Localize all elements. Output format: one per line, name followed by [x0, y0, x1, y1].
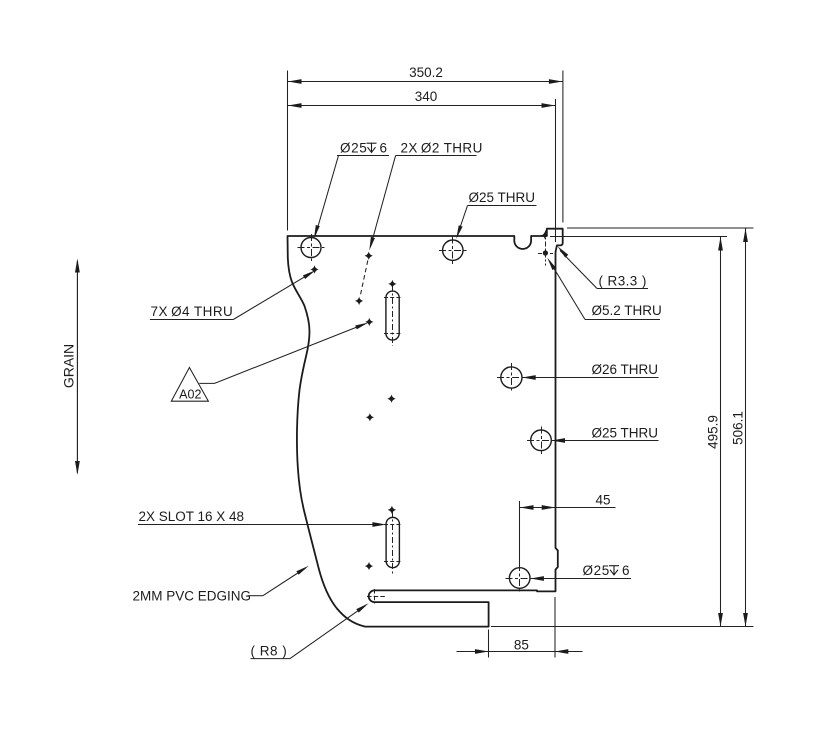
svg-text:Ø5.2 THRU: Ø5.2 THRU	[592, 303, 662, 318]
svg-text:350.2: 350.2	[409, 65, 443, 80]
svg-text:Ø25 THRU: Ø25 THRU	[469, 190, 536, 205]
slot 16x48 upper	[386, 291, 399, 340]
dashed link between 2x d2 holes	[360, 261, 368, 298]
label d25 depth 6 bottom	[530, 563, 631, 581]
drill point d4 hole 2	[365, 318, 373, 326]
dimension 506.1	[567, 228, 754, 627]
slot R8 centerline	[367, 589, 387, 604]
svg-text:GRAIN: GRAIN	[61, 344, 77, 388]
svg-text:506.1: 506.1	[731, 411, 746, 445]
svg-text:Ø25: Ø25	[583, 563, 610, 578]
label 7x d4 thru	[150, 270, 316, 319]
svg-text:A02: A02	[179, 388, 201, 402]
svg-text:( R3.3 ): ( R3.3 )	[599, 274, 647, 289]
dimension 45	[520, 501, 616, 566]
label R3.3	[558, 246, 649, 288]
label R8	[251, 603, 369, 658]
hole 26 thru right	[501, 367, 522, 388]
svg-text:6: 6	[622, 563, 630, 578]
svg-text:495.9: 495.9	[706, 415, 721, 449]
drill point d4 hole 7	[365, 562, 373, 570]
drill point d4 hole 4	[387, 395, 395, 403]
drill point near d5.2 hole	[541, 232, 548, 239]
svg-text:2X Ø2 THRU: 2X Ø2 THRU	[401, 141, 483, 156]
edge band triangle A02	[171, 323, 368, 402]
svg-text:2X SLOT 16 X 48: 2X SLOT 16 X 48	[139, 509, 245, 524]
slot 16x48 lower	[386, 517, 399, 567]
hole counterbore 25x6 bottom	[509, 568, 530, 589]
label 2x d2 thru	[369, 141, 482, 251]
label d5.2 thru	[547, 258, 662, 320]
bottom extension line	[491, 626, 754, 628]
drill point d4 hole 6	[388, 506, 396, 514]
svg-text:2MM PVC EDGING: 2MM PVC EDGING	[133, 589, 252, 604]
drill point stars (7x d4 and 2x d2)	[310, 232, 548, 570]
drill point d4 hole 3	[388, 280, 396, 288]
svg-text:340: 340	[415, 89, 438, 104]
label d25 thru right	[552, 426, 659, 443]
svg-text:Ø26 THRU: Ø26 THRU	[592, 362, 659, 377]
label d26 thru	[522, 362, 658, 380]
dimension 350.2	[288, 71, 563, 231]
grain arrow	[76, 261, 78, 473]
svg-text:45: 45	[595, 493, 610, 508]
svg-text:6: 6	[380, 141, 388, 156]
dimension 85	[457, 597, 583, 658]
drill point d4 hole 5	[366, 413, 374, 421]
label d25 thru top	[456, 190, 536, 239]
drill point d2 hole 2	[355, 297, 363, 305]
svg-text:7X Ø4 THRU: 7X Ø4 THRU	[151, 304, 234, 319]
label d25 depth 6 top	[314, 141, 389, 239]
label 2mm pvc edging	[133, 566, 309, 604]
dimension 495.9	[550, 237, 727, 627]
label 2x slot 16x48	[138, 509, 386, 527]
part outline	[288, 229, 563, 627]
hole counterbore 25x6 top-left	[301, 238, 321, 258]
hole 5.2 thru	[538, 231, 553, 266]
drill point d4 hole 1	[310, 265, 318, 273]
drill point d2 hole 1	[365, 252, 373, 260]
svg-text:( R8 ): ( R8 )	[251, 644, 288, 659]
hole 25 thru top	[443, 240, 463, 260]
svg-text:85: 85	[514, 638, 529, 653]
hole 25 thru right	[531, 430, 552, 451]
svg-text:Ø25 THRU: Ø25 THRU	[592, 426, 659, 441]
dimension 340	[288, 99, 556, 242]
svg-text:Ø25: Ø25	[340, 141, 367, 156]
